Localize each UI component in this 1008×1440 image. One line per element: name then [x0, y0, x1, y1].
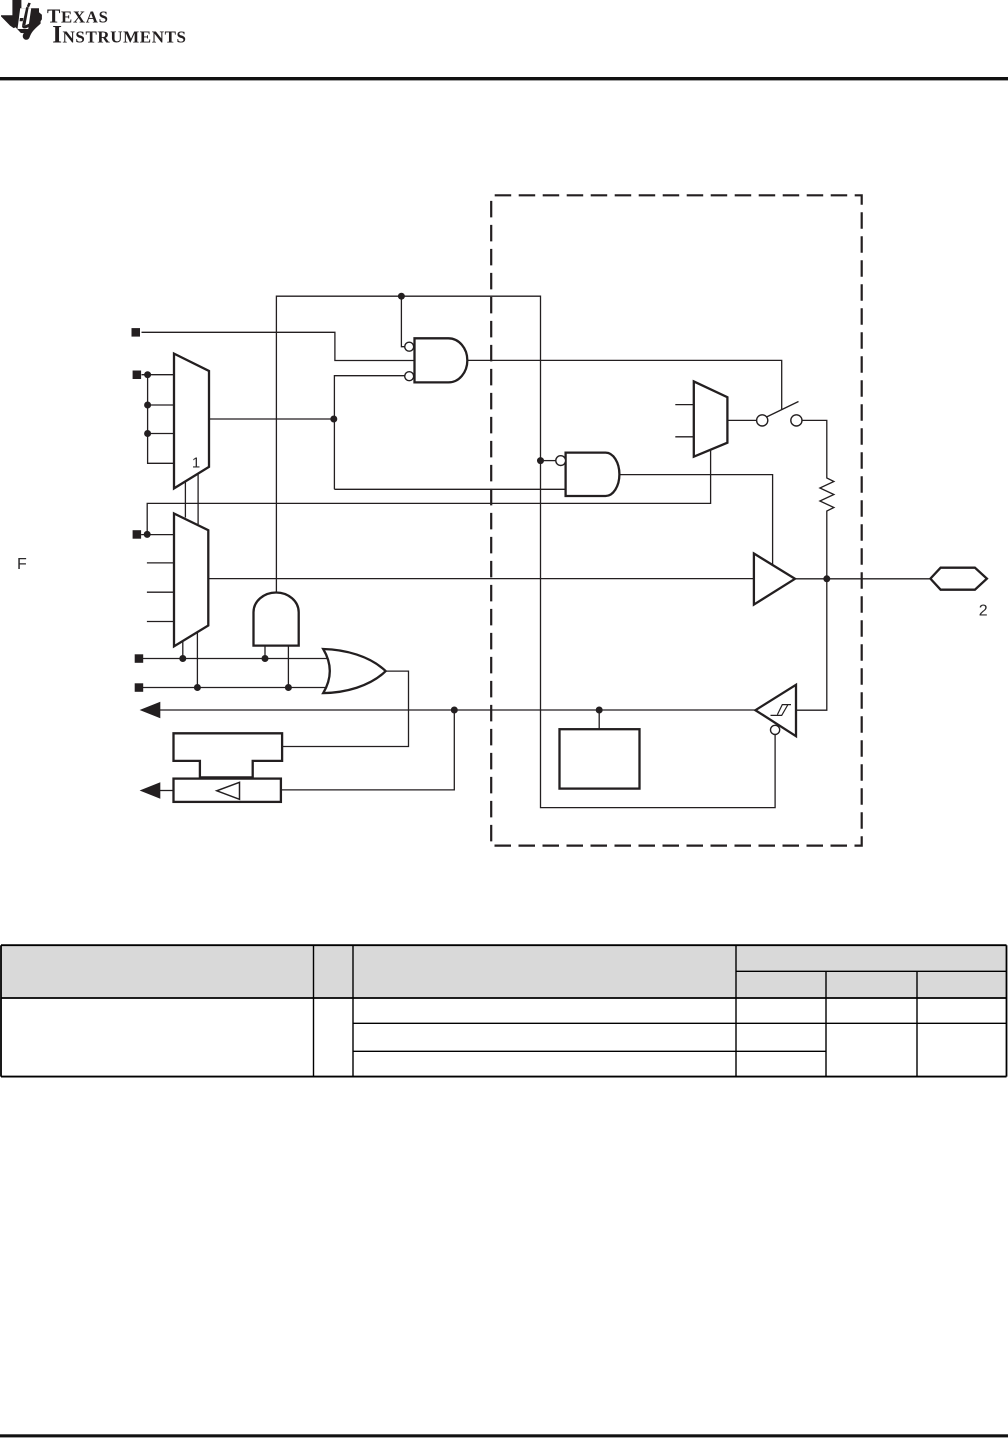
svg-text:1: 1 — [192, 455, 200, 472]
svg-text:2: 2 — [979, 603, 988, 620]
svg-text:F: F — [17, 556, 27, 573]
